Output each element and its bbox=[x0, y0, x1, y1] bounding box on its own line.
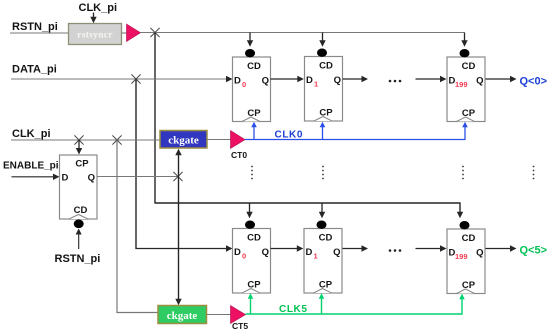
flip-flop D199 (row 5) bbox=[447, 221, 485, 294]
flip-flop D1 (row 5) bbox=[304, 221, 342, 294]
svg-text:CD: CD bbox=[462, 233, 476, 244]
node vertical ellipsis output column bbox=[533, 166, 535, 180]
node vertical ellipsis column D199 bbox=[462, 166, 464, 180]
wire DATA_pi to row-0 D input bbox=[11, 76, 233, 82]
svg-text:1: 1 bbox=[314, 80, 318, 89]
clock gate ckgate U1 (row 0) bbox=[160, 131, 207, 149]
wire row-5 reset rail (horizontal) bbox=[154, 202, 460, 204]
wire FF D1 Q out (row 0) bbox=[343, 76, 369, 82]
wire CLK0 net (blue clock rail row 0) bbox=[245, 139, 465, 141]
svg-text:CLK5: CLK5 bbox=[279, 304, 308, 315]
svg-text:1: 1 bbox=[314, 252, 318, 261]
svg-text:0: 0 bbox=[242, 252, 246, 261]
svg-text:ENABLE_pi: ENABLE_pi bbox=[3, 161, 59, 172]
svg-text:CLK_pi: CLK_pi bbox=[12, 128, 51, 140]
wire CLK5 to FF D1 CP pin (row 5) bbox=[319, 293, 325, 314]
junction X CLK tap for ckgate U2 bbox=[112, 135, 121, 144]
wire row-5 reset rail to FF D0 clear bbox=[246, 203, 252, 218]
wire reset rail drop to row-5 (vertical) bbox=[154, 33, 156, 203]
svg-text:CD: CD bbox=[74, 205, 88, 216]
svg-text:CD: CD bbox=[319, 233, 333, 244]
flip-flop D1 (row 0) bbox=[305, 49, 343, 122]
node vertical ellipsis column D1 bbox=[322, 166, 324, 180]
svg-text:RSTN_pi: RSTN_pi bbox=[55, 253, 101, 265]
wire rstsyncr output to buffer bbox=[122, 32, 128, 34]
wire CLK feed into ckgate U2 (horizontal) bbox=[116, 312, 158, 314]
wire ckgate U2 output to buffer CT5 bbox=[207, 314, 232, 316]
svg-text:CLK_pi: CLK_pi bbox=[79, 2, 118, 14]
svg-text:D: D bbox=[234, 76, 241, 87]
svg-text:Q: Q bbox=[262, 247, 269, 258]
svg-text:ckgate: ckgate bbox=[168, 135, 199, 147]
flip-flop D199 (row 0) bbox=[447, 49, 485, 122]
node ellipsis chain row 0 bbox=[389, 80, 402, 83]
svg-text:199: 199 bbox=[455, 80, 468, 89]
wire CLK0 to FF D1 CP pin bbox=[320, 122, 326, 140]
node ellipsis chain row 5 bbox=[389, 249, 402, 252]
wire into FF D199 D (row 0) bbox=[416, 76, 447, 82]
wire CLK_pi to rstsyncr clock input bbox=[90, 13, 96, 24]
svg-text:D: D bbox=[306, 247, 313, 258]
clock buffer CT0 (pink triangle) bbox=[231, 131, 246, 149]
svg-text:RSTN_pi: RSTN_pi bbox=[12, 21, 58, 33]
wire ckgate U1 output to buffer CT0 bbox=[207, 139, 231, 141]
wire CLK5 net (green clock rail row 5) bbox=[246, 313, 463, 315]
svg-text:CD: CD bbox=[462, 61, 476, 72]
wire FF D0 Q to FF D1 D (row 5) bbox=[271, 245, 304, 251]
wire reset rail to FF D0 clear bbox=[247, 33, 253, 47]
svg-text:199: 199 bbox=[455, 252, 468, 261]
wire row-5 reset rail to FF D1 clear bbox=[319, 203, 325, 218]
svg-text:Q: Q bbox=[88, 173, 95, 184]
wire CLK_pi horizontal to ckgate U1 bbox=[11, 139, 160, 141]
svg-text:CD: CD bbox=[247, 233, 261, 244]
flip-flop D0 (row 5) bbox=[233, 221, 271, 294]
wire RSTN_pi to enable flip-flop CD (bubble) bbox=[76, 229, 82, 250]
wire DATA drop to row-5 (vertical) bbox=[135, 79, 137, 249]
svg-text:CD: CD bbox=[319, 61, 333, 72]
junction X CLK to enable-FF clock bbox=[74, 135, 83, 144]
wire enable Q net bbox=[97, 176, 178, 178]
svg-text:Q: Q bbox=[262, 76, 269, 87]
svg-text:CLK0: CLK0 bbox=[275, 130, 304, 141]
junction X on DATA wire bbox=[131, 74, 140, 83]
wire row-5 reset rail to FF D199 clear bbox=[457, 203, 463, 218]
wire FF D199 Q to output Q<5> bbox=[486, 245, 517, 251]
svg-text:DATA_pi: DATA_pi bbox=[12, 64, 57, 76]
svg-text:Q: Q bbox=[334, 75, 341, 86]
clock buffer CT5 (pink triangle) bbox=[231, 306, 246, 324]
svg-text:Q: Q bbox=[476, 248, 483, 259]
wire enable net down to ckgate U2 bbox=[175, 177, 181, 306]
svg-text:rstsyncr: rstsyncr bbox=[77, 31, 113, 41]
wire FF D1 Q out (row 5) bbox=[343, 245, 369, 251]
wire into FF D199 D (row 5) bbox=[416, 245, 447, 251]
wire reset rail to FF D1 clear bbox=[319, 33, 325, 47]
junction X on reset rail bbox=[150, 28, 159, 37]
flip-flop D0 (row 0) bbox=[233, 49, 271, 122]
svg-text:D: D bbox=[306, 75, 313, 86]
wire DATA to row-5 D input bbox=[135, 245, 232, 251]
wire synchronized reset rail (top horizontal) bbox=[141, 32, 465, 34]
svg-text:Q<5>: Q<5> bbox=[520, 245, 548, 257]
svg-text:D: D bbox=[62, 173, 69, 184]
wire ENABLE_pi to enable flip-flop D bbox=[12, 174, 60, 180]
wire CLK to enable flip-flop CP bbox=[76, 140, 82, 155]
wire reset rail to FF D199 clear bbox=[461, 33, 467, 47]
buffer (reset tree) pink triangle bbox=[127, 24, 141, 42]
svg-text:Q: Q bbox=[476, 76, 483, 87]
wire FF D199 Q to output Q<0> bbox=[486, 76, 517, 82]
svg-text:Q: Q bbox=[333, 247, 340, 258]
wire RSTN_pi to rstsyncr bbox=[10, 32, 69, 34]
wire CLK feed down to ckgate U2 bbox=[116, 140, 118, 313]
wire CLK5 to FF D199 CP pin (row 5) bbox=[459, 294, 465, 315]
wire CLK0 to FF D199 CP pin bbox=[462, 122, 468, 140]
junction X on enable net bbox=[173, 172, 182, 181]
node vertical ellipsis column D0 bbox=[251, 166, 253, 180]
svg-text:D: D bbox=[234, 247, 241, 258]
svg-text:CP: CP bbox=[75, 159, 89, 170]
svg-text:Q<0>: Q<0> bbox=[520, 76, 548, 88]
wire FF D0 Q to FF D1 D (row 0) bbox=[271, 76, 304, 82]
svg-text:0: 0 bbox=[242, 80, 246, 89]
svg-text:CT0: CT0 bbox=[231, 150, 247, 160]
wire enable net up to ckgate U1 bbox=[175, 149, 181, 177]
svg-text:ckgate: ckgate bbox=[167, 310, 198, 322]
wire CLK0 to FF D0 CP pin bbox=[251, 122, 257, 140]
wire CLK5 to FF D0 CP pin (row 5) bbox=[248, 293, 254, 314]
reset synchronizer rstsyncr bbox=[69, 24, 122, 45]
svg-text:CT5: CT5 bbox=[232, 321, 248, 329]
enable flip-flop (CP top, CD bottom) bbox=[60, 155, 98, 228]
svg-text:CD: CD bbox=[247, 61, 261, 72]
clock gate ckgate U2 (row 5) bbox=[158, 306, 207, 324]
